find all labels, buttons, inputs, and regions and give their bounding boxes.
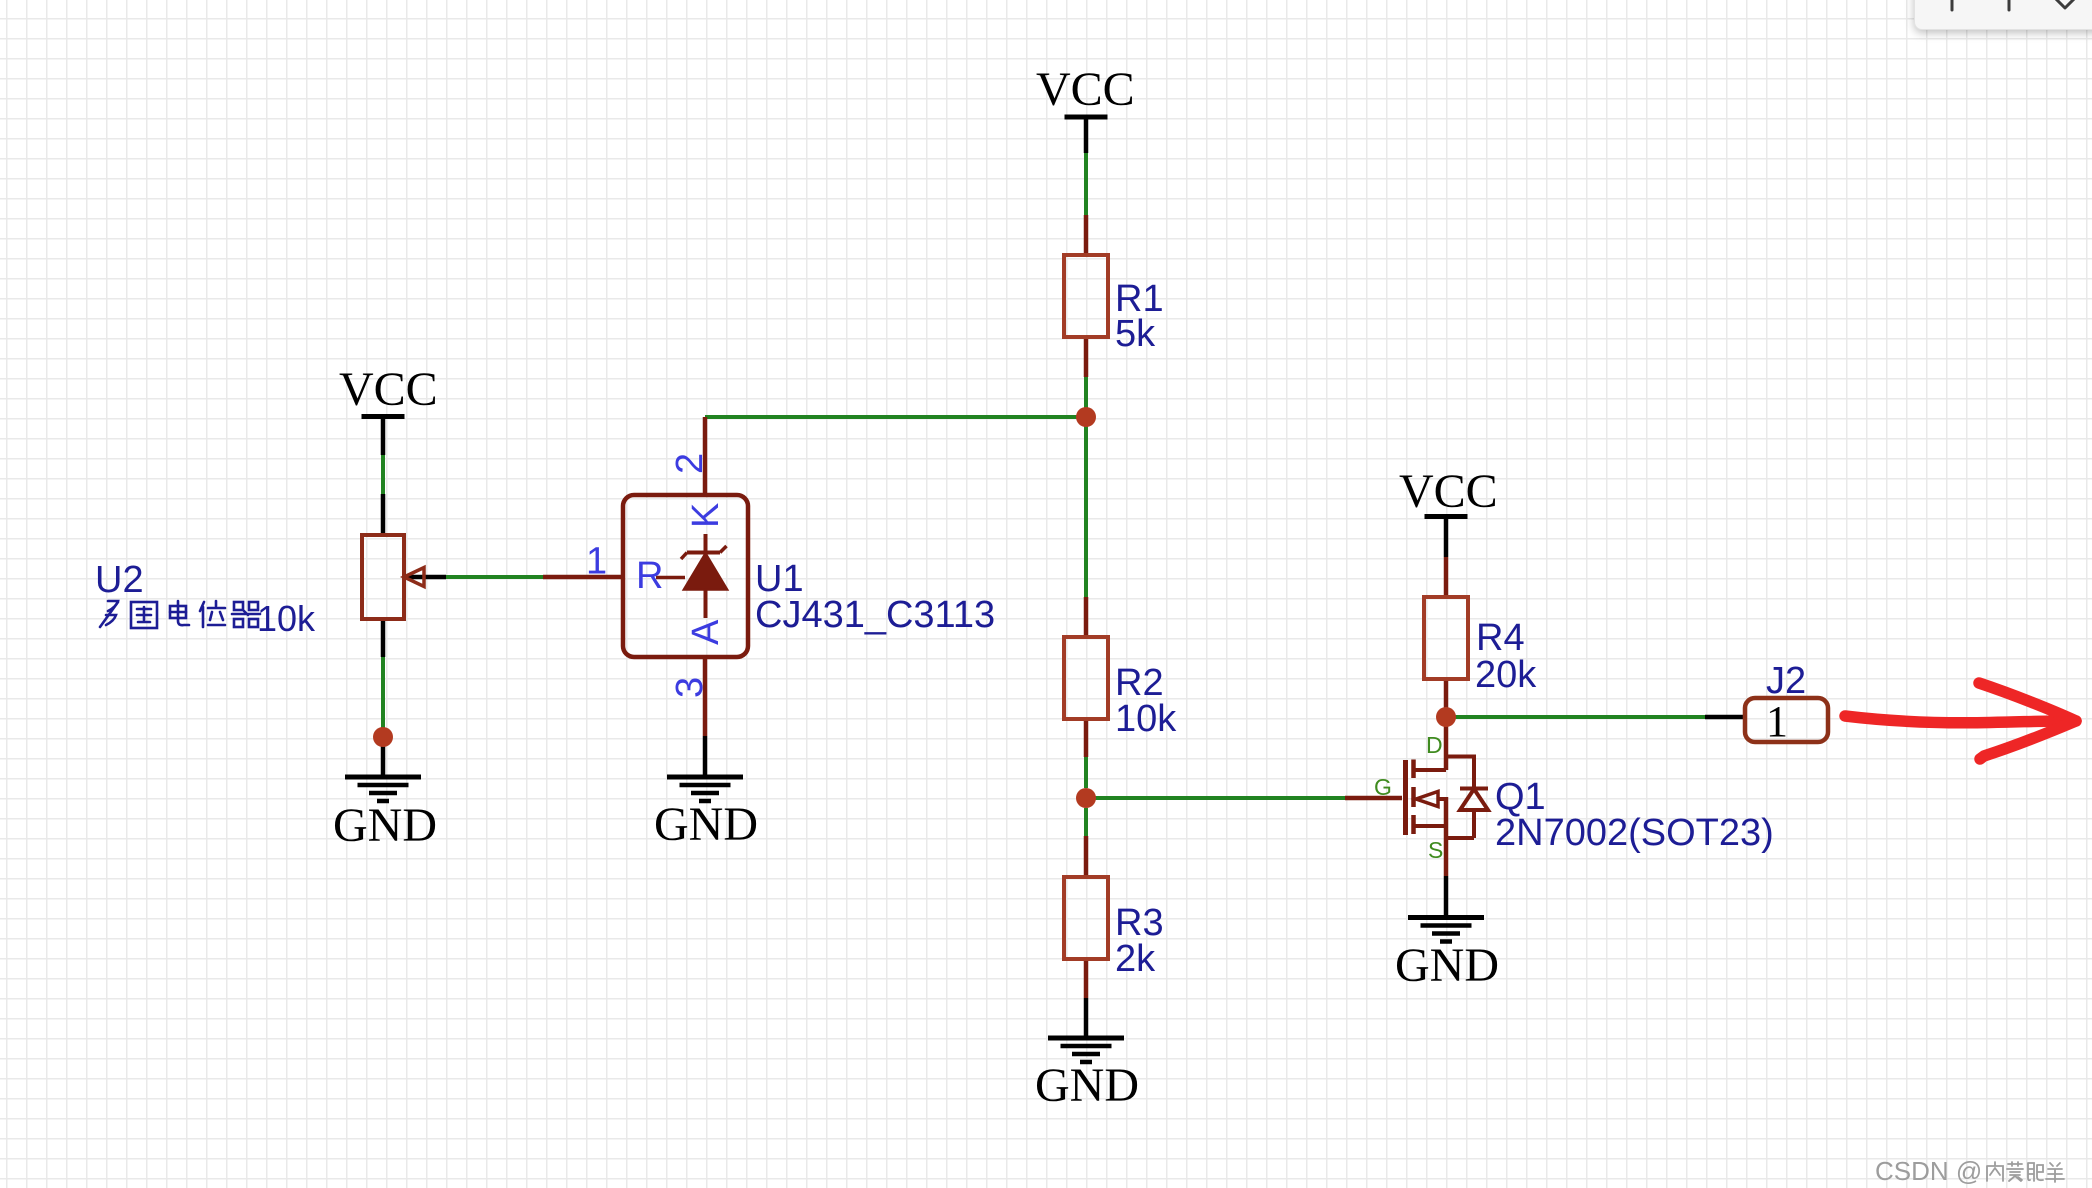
svg-text:U2: U2 (95, 559, 144, 601)
svg-text:GND: GND (333, 799, 437, 852)
svg-text:2: 2 (669, 453, 711, 474)
svg-text:2N7002(SOT23): 2N7002(SOT23) (1495, 812, 1774, 854)
svg-text:VCC: VCC (1399, 465, 1498, 518)
svg-text:3: 3 (669, 677, 711, 698)
svg-text:K: K (685, 503, 727, 528)
svg-text:1: 1 (1766, 697, 1788, 746)
svg-text:1: 1 (586, 541, 607, 583)
svg-text:R4: R4 (1476, 617, 1525, 659)
svg-text:G: G (1374, 774, 1392, 800)
svg-text:D: D (1426, 732, 1443, 758)
svg-text:VCC: VCC (1036, 63, 1135, 116)
svg-text:A: A (685, 619, 727, 645)
svg-text:VCC: VCC (339, 363, 438, 416)
svg-text:GND: GND (1035, 1059, 1139, 1112)
svg-text:2k: 2k (1115, 938, 1156, 980)
svg-text:5k: 5k (1115, 313, 1156, 355)
svg-text:GND: GND (1395, 939, 1499, 992)
svg-text:20k: 20k (1475, 654, 1537, 696)
svg-text:10k: 10k (1115, 698, 1177, 740)
svg-text:GND: GND (654, 798, 758, 851)
svg-text:CJ431_C3113: CJ431_C3113 (755, 594, 995, 636)
svg-text:J2: J2 (1766, 660, 1806, 702)
svg-text:CSDN @: CSDN @ (1875, 1156, 1982, 1186)
svg-text:R: R (636, 555, 663, 597)
svg-text:S: S (1428, 837, 1443, 863)
svg-text:10k: 10k (257, 598, 316, 639)
